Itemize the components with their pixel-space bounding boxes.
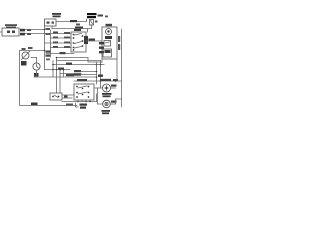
label BK [21, 61, 27, 66]
ladder labels [74, 70, 81, 72]
lid switch S1 [45, 19, 57, 26]
vertical drop C [96, 62, 98, 84]
drive motor M3 [103, 84, 111, 92]
S2 right terminals [84, 36, 88, 44]
wire filter to S2 [87, 29, 89, 33]
label under TM [105, 36, 112, 39]
bottom wire 1 [62, 101, 97, 103]
label above S2 [75, 27, 83, 29]
wire left border [20, 51, 78, 106]
wire pressure to A [20, 50, 45, 52]
label M [34, 73, 39, 77]
label DRIVE MOTOR [102, 93, 112, 95]
timer inner box 2 [103, 49, 112, 57]
label right border [98, 75, 103, 77]
wires into S2 [45, 33, 72, 35]
hub extra label [46, 59, 50, 61]
wire hub h6 [45, 69, 71, 71]
capacitor box C1 [50, 93, 62, 100]
wire top of motor area [74, 80, 122, 82]
label CAP [80, 104, 88, 106]
wire labels left of S2 [64, 32, 70, 34]
label TIMER [106, 24, 113, 26]
wire elbow pump right [116, 99, 122, 104]
wire vertical A [44, 26, 46, 70]
wire hub h7 [50, 76, 97, 78]
wire WH run [25, 33, 45, 35]
wire labels right of A lower [46, 51, 51, 53]
noise filter FL1 [87, 13, 97, 15]
wire top to filter [52, 28, 92, 30]
bracket bottom [76, 103, 79, 107]
pressure switch S3 [22, 52, 29, 59]
label POWER CORD [5, 24, 17, 26]
timer box T1 [102, 27, 117, 59]
vertical drop D [100, 61, 102, 89]
label on bottom line [66, 104, 73, 106]
wire S1 to filter [56, 21, 87, 23]
power cord plug P1 [2, 28, 19, 36]
timer motor TM [106, 29, 112, 35]
wire hub h4 [57, 60, 101, 62]
label PUMP [102, 110, 111, 112]
hub verticals [52, 61, 54, 78]
wire right border [121, 29, 123, 107]
wire S2 to timer [86, 40, 102, 42]
label GRN on bottom [31, 103, 38, 106]
label LID SWITCH [52, 13, 61, 15]
wire labels right of A [46, 28, 51, 30]
wire hub h3 [88, 58, 102, 63]
wire elbow to pump [98, 88, 103, 104]
wires cap to S4 [62, 94, 74, 96]
wire hub h2 [57, 57, 89, 59]
timer motor M2 [33, 63, 40, 70]
timer contact box [104, 41, 111, 47]
S2 contacts right [82, 35, 84, 37]
motor switch box S4 [74, 84, 94, 100]
ladder wires [81, 71, 97, 73]
junction dots [56, 57, 58, 59]
wire hub h1 [46, 53, 74, 55]
wire hub h8 [60, 73, 81, 75]
pump motor M4 [103, 100, 111, 108]
wire hub h5 [53, 64, 104, 66]
wire BK run [25, 29, 45, 31]
wire under M2 [36, 70, 38, 77]
water level switch S2 [71, 32, 86, 52]
S2 contacts left [73, 34, 75, 36]
timer right side text [118, 36, 120, 42]
label WH [98, 15, 104, 17]
timer left terminals [99, 42, 104, 44]
plug terminal WH [20, 33, 25, 36]
plug terminal BK [20, 29, 25, 32]
wire vertical B [50, 30, 52, 57]
stubs under S4 [77, 100, 79, 102]
right inner vertical [116, 59, 118, 81]
